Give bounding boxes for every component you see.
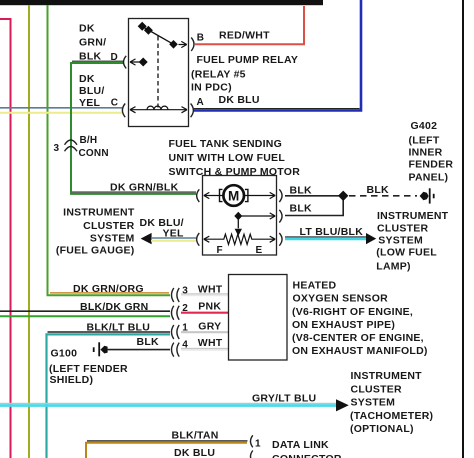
svg-text:FUEL PUMP RELAY: FUEL PUMP RELAY [197, 54, 299, 66]
relay pin D terminal (arrow + contact) [130, 58, 147, 66]
wire GRY/LT BLU to tachometer [0, 404, 336, 407]
svg-text:INSTRUMENT: INSTRUMENT [351, 370, 423, 382]
right page border [462, 0, 464, 458]
wire BLK/TAN to data link connector (black) [87, 440, 248, 442]
wire GRY/LT BLU to tachometer (grey tracer) [0, 402, 336, 404]
black tracer of DK GRN/BLK (tank run) [72, 191, 196, 193]
svg-text:CONNECTOR: CONNECTOR [272, 453, 342, 458]
svg-text:SHIELD): SHIELD) [50, 374, 94, 386]
label (LEFT FENDER SHIELD) [49, 363, 128, 386]
label INSTRUMENT CLUSTER SYSTEM (LOW FUEL LAMP) [376, 210, 448, 272]
fuel tank sending unit box [203, 176, 277, 256]
wire DK BLU from relay pin A up to top edge [194, 0, 361, 110]
wire WHT pin 4 to sensor [181, 347, 229, 349]
relay switch arm and contacts [138, 23, 186, 48]
connector half at tank low-fuel pin (right) [279, 210, 282, 223]
svg-text:G402: G402 [411, 120, 438, 132]
connector half at tank pin E (right) [279, 233, 282, 246]
svg-text:(TACHOMETER): (TACHOMETER) [350, 410, 433, 422]
power bus bar (top page link) [0, 0, 323, 5]
wire DK BLU/YEL from tank pin F (yellow) [151, 240, 196, 242]
arrow to instrument cluster (tachometer) [336, 399, 349, 411]
label DK BLU/YEL (stacked) [79, 73, 105, 109]
svg-text:BLK: BLK [290, 202, 312, 214]
heated oxygen sensor box [229, 275, 288, 361]
wire DK BLU/YEL to relay pin C (yellow line) [0, 112, 122, 114]
svg-text:E: E [256, 245, 263, 256]
wire DK GRN/ORG vertical feed + row to O2 pin 3 [48, 5, 171, 295]
connector pair at O2 pin 3 [172, 288, 180, 302]
label INSTRUMENT CLUSTER SYSTEM (FUEL GAUGE) [56, 207, 135, 257]
svg-text:DATA LINK: DATA LINK [272, 439, 329, 451]
svg-text:LAMP): LAMP) [376, 260, 411, 272]
wire WHT pin 3 to sensor [181, 293, 229, 295]
label DK BLU/YEL (gauge wire) [140, 217, 185, 239]
wire DK GRN/BLK: relay pin D down and right to fuel tank unit [71, 63, 196, 194]
svg-text:B/H: B/H [80, 135, 98, 146]
svg-text:ON EXHAUST MANIFOLD): ON EXHAUST MANIFOLD) [292, 345, 428, 357]
connector half at relay pin A [191, 104, 194, 118]
connector half at tank motor pin (left) [197, 189, 200, 202]
svg-text:SYSTEM: SYSTEM [351, 397, 396, 409]
label DATA LINK CONNECTOR [272, 439, 342, 458]
wire BLK/DK GRN to O2 pin 2 (black) [0, 310, 170, 312]
svg-text:INSTRUMENT: INSTRUMENT [377, 210, 449, 222]
connector at data link pin 1 [251, 435, 253, 447]
svg-text:BLK: BLK [367, 184, 389, 196]
svg-text:D: D [111, 52, 118, 63]
svg-text:CLUSTER: CLUSTER [83, 220, 135, 232]
wire BLK (dashed) to G402 [349, 195, 417, 197]
svg-text:CONN: CONN [79, 148, 109, 159]
wire RED/WHT from relay pin B up to bus bar [195, 6, 304, 44]
black edge of DK BLU wire [194, 108, 360, 110]
svg-text:HEATED: HEATED [293, 280, 337, 292]
wire BLK tank motor to ground junction [285, 195, 341, 197]
low fuel switch tap (junction + arrow to sender) [235, 213, 276, 237]
wire BLK from G100 to O2 pin 4 [107, 349, 170, 351]
wire BLK/TAN (tan) with drop to page bottom [86, 443, 247, 458]
connector B/H CONN (in-line, on DK GRN/BLK) [65, 140, 78, 151]
svg-text:(LEFT: (LEFT [409, 134, 440, 146]
wire BLK/LT BLU to O2 pin 1 (black) [48, 331, 171, 333]
fuel pump motor M1 [220, 185, 248, 206]
svg-text:A: A [197, 97, 204, 108]
svg-text:G100: G100 [51, 347, 78, 359]
svg-text:SYSTEM: SYSTEM [378, 235, 423, 247]
relay actuating link (dashed) [157, 36, 159, 108]
wire BLK/LT BLU (teal) down to page bottom [47, 334, 171, 458]
wire BLK low fuel switch to junction [285, 199, 343, 216]
svg-text:PANEL): PANEL) [409, 172, 449, 184]
label FUEL TANK SENDING UNIT WITH LOW FUEL SWITCH & PUMP MOTOR [169, 138, 301, 178]
svg-text:DK: DK [79, 73, 95, 85]
connector at data link pin 2 (clipped) [251, 451, 253, 458]
ground G402 [420, 188, 434, 203]
svg-text:BLK: BLK [290, 184, 312, 196]
svg-text:C: C [111, 98, 118, 109]
label HEATED OXYGEN SENSOR ... [292, 280, 428, 357]
svg-text:UNIT WITH LOW FUEL: UNIT WITH LOW FUEL [169, 152, 286, 164]
connector half at tank pin F (left) [197, 233, 200, 246]
svg-text:DK BLU: DK BLU [219, 94, 260, 106]
label B/H CONN [79, 135, 109, 159]
svg-text:DK GRN/BLK: DK GRN/BLK [110, 181, 179, 193]
svg-text:BLK: BLK [79, 51, 101, 63]
connector pair at O2 pin 4 [172, 343, 180, 357]
connector pair at O2 pin 2 [172, 306, 180, 320]
arrow to instrument cluster (fuel gauge) [141, 233, 152, 244]
svg-text:DK: DK [79, 23, 95, 35]
connector half at relay pin D [124, 56, 127, 69]
orange tracer of DK GRN/ORG [50, 292, 169, 294]
fuel level sender resistor (F-E) [204, 234, 275, 244]
svg-text:DK GRN/ORG: DK GRN/ORG [73, 283, 144, 295]
connector half at relay pin B [191, 38, 194, 52]
svg-text:LT BLU/BLK: LT BLU/BLK [300, 226, 364, 238]
svg-text:M: M [228, 188, 239, 203]
svg-text:FENDER: FENDER [409, 159, 454, 171]
svg-text:PNK: PNK [198, 301, 221, 313]
svg-text:(RELAY #5: (RELAY #5 [191, 68, 246, 80]
svg-text:BLU/: BLU/ [79, 85, 105, 97]
connector pair at O2 pin 1 [172, 325, 180, 339]
svg-text:CLUSTER: CLUSTER [377, 223, 429, 235]
svg-text:RED/WHT: RED/WHT [219, 30, 270, 42]
svg-text:BLK/TAN: BLK/TAN [172, 429, 219, 441]
svg-text:(OPTIONAL): (OPTIONAL) [350, 423, 414, 435]
motor row wire with end arrows [204, 192, 275, 198]
svg-text:WHT: WHT [198, 337, 223, 349]
svg-text:INNER: INNER [409, 147, 443, 159]
arrow to instrument cluster (low fuel lamp) [366, 233, 376, 244]
black tracer of DK GRN/BLK (pin D run) [72, 60, 124, 62]
svg-text:B: B [197, 33, 204, 44]
svg-text:IN PDC): IN PDC) [191, 82, 232, 94]
svg-text:3: 3 [54, 143, 60, 154]
label G402 (LEFT INNER FENDER PANEL) [409, 120, 454, 184]
svg-text:(FUEL GAUGE): (FUEL GAUGE) [56, 245, 135, 257]
wire BLK/DK GRN to O2 pin 2 (green) [0, 315, 170, 317]
svg-text:GRN/: GRN/ [79, 37, 106, 49]
svg-text:GRY: GRY [198, 321, 221, 333]
connector half at relay pin C [122, 104, 125, 118]
svg-text:ON EXHAUST PIPE): ON EXHAUST PIPE) [292, 319, 395, 331]
wire PNK (left vertical from page edge) [0, 19, 11, 458]
wire olive vertical (dk grn/yel feed) [28, 5, 30, 458]
svg-text:SWITCH & PUMP MOTOR: SWITCH & PUMP MOTOR [169, 166, 301, 178]
svg-text:CLUSTER: CLUSTER [351, 383, 403, 395]
connector half at tank motor ground pin (right) [279, 189, 282, 202]
fuel pump relay U? box [129, 19, 189, 127]
ground G100 [94, 342, 108, 356]
svg-text:SYSTEM: SYSTEM [90, 232, 135, 244]
svg-text:F: F [217, 245, 223, 256]
wire LT BLU/BLK to low fuel lamp (black tracer) [285, 236, 366, 238]
label FUEL PUMP RELAY (RELAY #5 IN PDC) [191, 54, 298, 93]
svg-text:(V8-CENTER OF ENGINE,: (V8-CENTER OF ENGINE, [292, 332, 424, 344]
wire DK BLU/YEL to relay pin C (slate line) [0, 107, 122, 109]
svg-text:BLK: BLK [137, 336, 159, 348]
svg-text:GRY/LT BLU: GRY/LT BLU [252, 393, 316, 405]
label INSTRUMENT CLUSTER SYSTEM (TACHOMETER) (OPTIONAL) [350, 370, 433, 435]
wire GRY pin 1 to sensor [181, 331, 229, 333]
svg-text:YEL: YEL [79, 97, 101, 109]
label DK GRN/BLK (stacked) [79, 23, 106, 63]
svg-text:1: 1 [255, 438, 261, 449]
wire PNK pin 2 to sensor [181, 312, 229, 314]
junction node (splice) [338, 191, 348, 201]
svg-text:DK BLU: DK BLU [174, 447, 215, 458]
svg-text:FUEL TANK SENDING: FUEL TANK SENDING [169, 138, 283, 150]
svg-text:(V6-RIGHT OF ENGINE,: (V6-RIGHT OF ENGINE, [292, 306, 413, 318]
relay coil (pins C to A) [130, 106, 187, 113]
svg-text:(LOW FUEL: (LOW FUEL [376, 247, 437, 259]
wire DK BLU/YEL from tank pin F (slate) [151, 237, 196, 239]
wire LT BLU/BLK (cyan) [285, 238, 366, 240]
svg-text:INSTRUMENT: INSTRUMENT [63, 207, 135, 219]
svg-text:OXYGEN SENSOR: OXYGEN SENSOR [293, 293, 389, 305]
